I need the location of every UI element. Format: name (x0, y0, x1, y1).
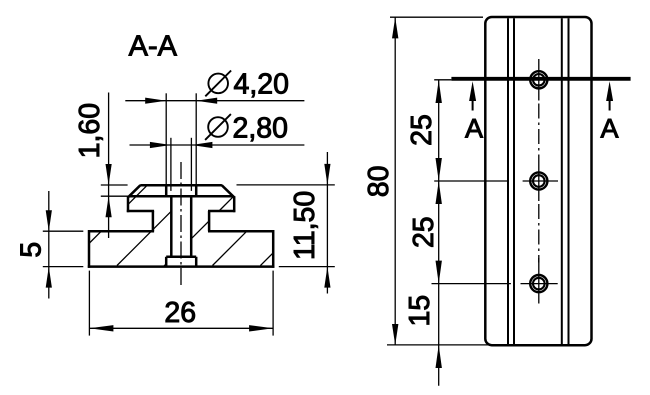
bottom hole inner circle (533, 278, 545, 290)
part outline: base left side (88, 230, 91, 268)
hatch line c430 sliver left of flange (164, 264, 167, 267)
svg-text:26: 26 (164, 297, 196, 329)
dimension 1,60 upper extension line (101, 184, 128, 186)
hatch line c478 base right (213, 232, 247, 266)
right section arrow stem (609, 100, 611, 111)
part outline: head bottom left (127, 210, 154, 213)
hole centerline dash-dot lower (538, 204, 540, 263)
svg-text:25: 25 (406, 114, 438, 146)
part outline: base top left (89, 230, 154, 233)
part outline: base top right (208, 230, 273, 233)
svg-text:25: 25 (408, 216, 440, 248)
plate slot edge line 1 (507, 18, 509, 344)
hole centerline dash-dot upper (538, 104, 540, 161)
hole centerline solid over bottom hole (538, 258, 540, 304)
left section arrow head (469, 81, 476, 101)
dimension Ø2,80 right extension line (190, 138, 192, 191)
dimension 80 bottom arrow (392, 324, 398, 345)
screw flange right side (195, 257, 198, 267)
screw head left side (165, 185, 168, 196)
dimension 80 top arrow (392, 17, 398, 38)
screw flange left side (165, 257, 168, 267)
dimension 11,50 dim line (326, 152, 328, 294)
part outline: head bottom right (208, 210, 235, 213)
plate slot edge line 2 (513, 18, 515, 344)
dimension 1,60 lower extension line (101, 195, 135, 197)
dimension 25 bottom arrow down (436, 261, 442, 284)
dimension Ø2,80 dim line (130, 144, 305, 146)
svg-text:11,50: 11,50 (289, 191, 321, 260)
dimension 80 top extension line (390, 16, 483, 18)
dimension Ø2,80 right arrow (191, 142, 212, 148)
part outline: base bottom (88, 265, 275, 268)
dimension 1,60 lower arrow (106, 196, 112, 217)
dimension 11,50 upper arrow (324, 164, 330, 185)
counterbore step line (129, 195, 232, 198)
middle hole inner circle (533, 175, 545, 187)
bottom hole horizontal crosshair (521, 283, 558, 285)
left section arrow stem (472, 100, 474, 111)
svg-text:4,20: 4,20 (234, 69, 289, 101)
middle hole outer circle (530, 172, 547, 189)
dimension 26 right extension line (272, 271, 274, 336)
part outline: neck left side (152, 211, 155, 231)
dimension Ø4,20 left extension line (165, 93, 167, 185)
svg-text:A-A: A-A (129, 31, 178, 63)
part outline: left chamfer (128, 185, 140, 197)
dimension 5 dim line (48, 191, 50, 299)
part outline: base right side (272, 230, 275, 268)
dimension 26 left extension line (88, 271, 90, 336)
dimension 26 left arrow (89, 325, 113, 331)
dimension 80 dim line (394, 17, 396, 345)
dimension 11,50 lower extension line (279, 266, 335, 268)
svg-text:5: 5 (16, 242, 48, 258)
dimension Ø2,80 left arrow (150, 142, 171, 148)
hatch line c382 base through neck (117, 211, 171, 265)
screw shaft right side (190, 196, 193, 257)
hole3 extension line (432, 283, 511, 285)
dimension 25 top arrow up (436, 80, 442, 103)
hole centerline solid over top hole (538, 59, 540, 101)
svg-text:2,80: 2,80 (233, 112, 288, 144)
dimension 25 mid arrow up (436, 181, 442, 204)
bottom hole outer circle (530, 275, 547, 292)
hatch line c526 base right corner (260, 253, 273, 266)
part outline: head right side (233, 196, 236, 212)
right section arrow head (606, 81, 613, 101)
plate outline rounded rectangle (485, 17, 591, 345)
hatch line c430 head right (219, 196, 234, 211)
dimension 5 upper extension line (43, 230, 84, 232)
dimension 26 dim line (89, 327, 273, 329)
dimension 26 right arrow (249, 325, 273, 331)
dimension Ø4,20 dim line (125, 100, 304, 102)
svg-text:A: A (465, 114, 483, 144)
svg-text:80: 80 (363, 166, 395, 198)
part outline: right chamfer (222, 185, 235, 197)
screw head right side (195, 185, 198, 196)
dimension Ø4,20 left arrow (145, 98, 166, 104)
dimension Ø4,20 right arrow (196, 98, 217, 104)
screw shaft left side (170, 196, 173, 257)
plate slot edge line 3 (561, 18, 563, 344)
part outline: head left side (127, 196, 130, 212)
hatch line c332 base left corner (89, 232, 101, 244)
hatch line c332 head left (128, 186, 147, 205)
top hole inner circle (533, 74, 545, 86)
hole1 extension line (434, 79, 451, 81)
dimension 25 mid arrow down (436, 158, 442, 181)
svg-text:15: 15 (404, 295, 436, 327)
dimension 1,60 upper arrow (106, 164, 112, 185)
section cutting line A-A (451, 77, 630, 81)
dimension Ø4,20 diameter symbol (208, 74, 228, 94)
chain dimension line (438, 80, 440, 386)
dimension 5 lower extension line (43, 266, 84, 268)
dimension 1,60 dim line (108, 93, 110, 239)
dimension Ø4,20 right extension line (195, 93, 197, 185)
dimension 80 bottom extension line (387, 344, 489, 346)
hatch line c430 neck right (191, 221, 209, 239)
top hole outer circle (530, 71, 547, 88)
dimension 11,50 upper extension line (237, 184, 335, 186)
dimension 5 upper arrow (46, 210, 52, 231)
part outline: top face (140, 184, 222, 187)
dimension Ø2,80 diameter symbol (208, 117, 228, 137)
svg-text:A: A (600, 114, 618, 144)
dimension 5 lower arrow (46, 267, 52, 288)
dimension Ø2,80 left extension line (170, 138, 172, 191)
dimension 11,50 lower arrow (324, 267, 330, 288)
plate slot edge line 4 (568, 18, 570, 344)
svg-text:1,60: 1,60 (74, 103, 106, 158)
dimension 15 bottom arrow up outside (436, 345, 442, 368)
part outline: neck right side (208, 211, 211, 231)
screw flange top (166, 256, 196, 259)
hole centerline solid over middle hole (538, 161, 540, 202)
vertical centerline of screw (180, 162, 182, 288)
middle hole horizontal crosshair (523, 180, 558, 182)
hole2 extension line (434, 180, 508, 182)
